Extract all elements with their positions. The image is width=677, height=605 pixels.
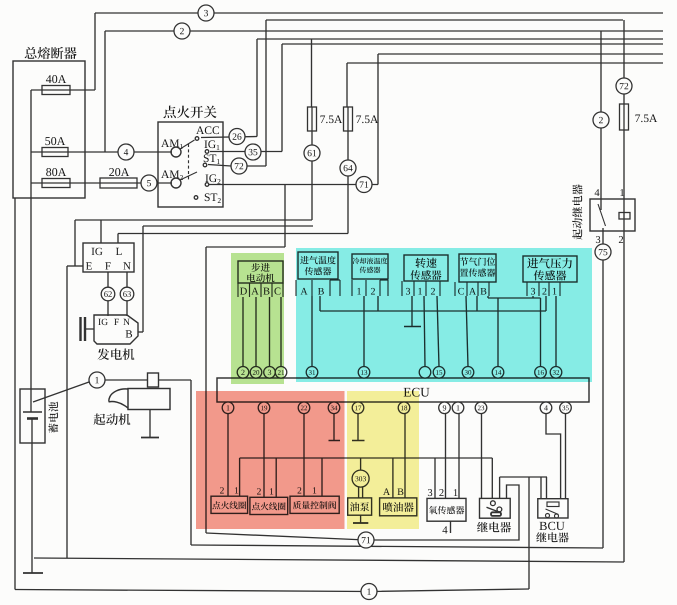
BCU relay box	[538, 499, 568, 518]
ignition switch box 点火开关	[158, 122, 223, 207]
throttle position sensor box 节气门位置传感器	[459, 254, 496, 282]
label coolant temp line2	[360, 267, 367, 274]
value 20A	[109, 168, 114, 176]
terminal AM1	[161, 139, 169, 147]
alternator pulley	[81, 317, 86, 341]
wire signal line riser to ECU pin16	[540, 298, 542, 367]
fuse F2 7.5A	[344, 107, 353, 131]
wire battery negative down	[31, 419, 33, 574]
BCU relay coil	[547, 502, 559, 507]
wire intake B drop to ground bus	[319, 296, 321, 311]
stepper motor box 步进电动机	[238, 261, 283, 283]
wire bus L6 node 71	[378, 53, 663, 55]
wire ECU pin1 to coil1 pin2	[227, 414, 229, 497]
pin 3 starter relay	[596, 236, 600, 243]
label alternator 发电机	[98, 348, 110, 360]
node 1 at starter	[89, 372, 105, 388]
speed sensor box 转速传感器	[404, 255, 448, 281]
starter relay coil	[619, 213, 630, 220]
pin 2 coil1	[220, 487, 224, 493]
pin IG connector	[92, 248, 95, 255]
ECU top pin 2	[237, 367, 249, 379]
main relay contact circle b	[497, 507, 502, 512]
pressure pin cells 3 2 1	[527, 282, 560, 296]
wire ECU pin35 to BCU relay	[565, 414, 567, 499]
manifold pressure sensor box 进气压力传感器	[523, 256, 577, 282]
wire bottom positive line node 1	[15, 589, 529, 592]
main relay contact circle a	[491, 501, 496, 506]
BCU relay contact b	[555, 514, 559, 518]
ECU top pin 15	[433, 367, 445, 379]
wire ACC to node 26	[201, 137, 257, 138]
wire pump line node 71 bottom	[206, 485, 519, 540]
pin B throttle	[480, 288, 486, 295]
BCU relay contact a	[546, 514, 550, 518]
pin 2 oxygen	[439, 489, 443, 496]
wire stepper D to ECU pin2	[242, 297, 244, 367]
red highlight zone over ignition actuators	[196, 391, 345, 529]
label injector 喷油器	[383, 502, 393, 512]
wire pressure 2 drop to ground bus	[545, 296, 547, 311]
wire H1 to BCU coil b	[546, 477, 548, 499]
label speed sensor line1	[415, 258, 425, 268]
starter solenoid terminal	[148, 373, 159, 387]
node 64	[340, 160, 356, 176]
wire 61 line to alternator IG	[75, 219, 312, 221]
ignition coil 1 box 点火线圈	[211, 496, 248, 513]
contact ST1	[203, 163, 207, 167]
BCU relay switch diagonal	[546, 509, 559, 515]
pin L connector	[116, 248, 122, 255]
cyan highlight zone over sensors	[296, 248, 592, 382]
wire F to node 62 to alternator	[107, 272, 109, 316]
label pressure line1	[527, 258, 538, 269]
wire long vertical down to pump line	[205, 247, 207, 533]
label throttle line2	[460, 269, 468, 277]
wire riser 26 up to L4	[256, 39, 258, 137]
wire fuse F1 through node 61 down	[311, 131, 313, 220]
ground bar battery	[23, 572, 43, 574]
wire bus L4 node 26	[257, 38, 663, 40]
wire intake A to ECU pin31	[311, 296, 313, 367]
terminal ACC	[196, 126, 204, 134]
wire H1 to main relay	[499, 477, 501, 498]
pin 2 speed	[431, 288, 435, 295]
wire bus L7 node 64	[347, 62, 663, 64]
wire sensor signal line B3	[488, 297, 541, 299]
mass control valve box 质量控制阀	[290, 496, 339, 513]
wire 50A fuse line to AM1	[31, 151, 172, 153]
label intake temp line1	[300, 256, 309, 264]
wire feed to main relay	[491, 458, 493, 498]
wire sensor ground bus	[320, 310, 546, 312]
pin F alternator	[114, 319, 119, 325]
wire pressure 3 drop	[532, 296, 534, 298]
wire bus L5 node 35	[282, 43, 663, 45]
fuse F1 7.5A	[308, 107, 317, 131]
battery box 蓄电池	[20, 389, 45, 443]
label main fuse box 总熔断器	[25, 47, 37, 59]
wire feed to coil2 pin1	[275, 458, 277, 497]
fuse F3 7.5A	[620, 104, 629, 130]
pin A injector	[383, 488, 390, 495]
pin IG alternator	[98, 319, 100, 325]
intake air temp sensor box 进气温度传感器	[298, 252, 338, 279]
wire ECU pin23 through feed line to main relay	[481, 414, 483, 499]
fuse box 总熔断器 outline	[13, 61, 85, 198]
label fuel pump 油泵	[350, 502, 359, 511]
wire ECU pin34 shield stub	[333, 414, 335, 440]
ECU top pin 32	[550, 367, 562, 379]
ECU bottom pin 9	[439, 402, 451, 414]
pin E connector	[86, 262, 92, 269]
coolant temp sensor box 冷却液温度传感器	[352, 254, 388, 279]
ground bar pump	[353, 522, 368, 524]
wire fuse F2 through node 64 down	[347, 131, 349, 234]
contact IG1	[205, 150, 209, 154]
wire N to node 63 to alternator	[126, 272, 128, 316]
green highlight zone over stepper motor	[231, 253, 284, 384]
wire oxygen pin4 stub	[450, 521, 452, 533]
label battery 蓄电池	[48, 402, 58, 433]
node 75	[595, 244, 611, 260]
pin 1 coil2	[270, 488, 273, 494]
fuse 80A	[42, 179, 70, 188]
node 2 top bus	[174, 23, 190, 39]
ECU top pin 3	[264, 367, 276, 379]
wire riser 71 up to L6	[377, 54, 379, 185]
shield bar pin17	[352, 440, 365, 442]
contact ACC	[195, 137, 199, 141]
ECU bottom pin 19	[258, 402, 270, 414]
wire IG2 line to node 71	[209, 184, 378, 186]
value 50A	[45, 137, 50, 145]
wire 64 line to alternator L	[118, 233, 348, 235]
pin 1 pressure	[553, 288, 557, 295]
fuel pump box 油泵	[348, 498, 372, 515]
wire alternator B line	[143, 225, 313, 227]
pin C throttle	[458, 288, 464, 295]
terminal ST2	[205, 193, 210, 201]
wire throttle A drop to ground bus	[476, 296, 478, 311]
label mass control valve	[293, 501, 301, 509]
alternator body 发电机	[94, 315, 138, 344]
wire battery ground line to relay pin2	[34, 558, 624, 562]
wire branch elbow to long vertical	[206, 246, 285, 248]
pin A intake temp	[300, 288, 307, 295]
wire 80A fuse line to 20A and AM2	[31, 182, 172, 184]
wire drop L3 to starter relay pin4	[600, 31, 602, 210]
pin 1 starter relay	[620, 189, 624, 196]
wire speed 2 to ECU pin15	[437, 296, 439, 367]
ECU top pin 13	[358, 367, 370, 379]
wire riser L7 down to fuse F2	[346, 63, 348, 107]
label stepper 电动机	[247, 273, 255, 282]
pin 2 valve	[298, 487, 302, 493]
battery plates symbol	[23, 411, 42, 413]
fuse 50A	[42, 148, 68, 157]
node 71 at switch line	[356, 177, 372, 193]
starter nose hook	[109, 389, 128, 408]
wire E ground drop	[66, 266, 68, 558]
pin C stepper	[274, 288, 280, 295]
oxygen sensor box 氧传感器	[427, 498, 466, 521]
pin 1 valve	[313, 487, 316, 493]
speed pin cells 3 1 2	[402, 281, 440, 296]
shield bar pin34	[329, 440, 341, 442]
wire E lead left	[67, 265, 83, 267]
ECU bottom pin 1	[222, 402, 234, 414]
starter relay switch contact	[598, 204, 606, 226]
wire signal line to ECU pin14	[497, 298, 499, 367]
pin A stepper	[251, 288, 258, 295]
node 303 fuel pump	[352, 470, 369, 487]
pin 1 coolant	[357, 288, 361, 295]
wire pump ground	[360, 515, 362, 522]
wire riser 35 up to L5	[281, 44, 283, 152]
fuse 40A	[42, 86, 70, 95]
wire 303 to pump a	[358, 487, 360, 498]
wire stepper B to ECU pin3	[269, 297, 271, 367]
terminal IG1	[204, 140, 207, 148]
wire riser L1 to 40A fuse line	[94, 13, 96, 90]
node 72 right	[616, 78, 632, 94]
label ignition coil 1	[212, 501, 220, 509]
starter motor body 起动机	[128, 389, 170, 410]
pin B stepper	[263, 288, 269, 295]
wire left edge drop	[14, 198, 16, 590]
coolant pin cells 1 2	[352, 280, 388, 296]
wire throttle B drop	[487, 296, 489, 298]
ECU bottom pin 17	[352, 402, 364, 414]
pin 1 speed	[418, 288, 422, 295]
wire stepper C to ECU pin21	[280, 297, 282, 367]
wire ECU pin1b to oxygen 1	[458, 414, 460, 499]
pin 1 coil1	[235, 487, 238, 493]
label main relay 继电器	[477, 522, 488, 532]
pin 4 starter relay	[595, 189, 600, 196]
ECU top pin 16	[535, 367, 547, 379]
terminal ST1	[204, 154, 209, 162]
wire ECU pin9 to oxygen 2	[445, 414, 447, 499]
wire bus L1 node 3	[95, 12, 663, 14]
ECU bottom pin 23	[475, 402, 487, 414]
fuel injector box 喷油器	[380, 498, 417, 516]
ECU bottom pin 1	[452, 402, 464, 414]
terminal AM2	[161, 170, 169, 178]
contact AM2	[171, 178, 181, 188]
ECU bottom pin 4	[540, 402, 552, 414]
label throttle line1	[460, 257, 468, 265]
node 26	[229, 129, 245, 145]
wire coolant 1 to ECU pin13	[363, 296, 365, 367]
pin B injector	[397, 488, 403, 495]
wire bus L3 node 2	[105, 30, 663, 32]
ECU top pin nc	[419, 367, 431, 379]
label BCU	[539, 522, 546, 530]
wire starter ground	[149, 410, 151, 437]
node 2 right	[593, 112, 609, 128]
wire feed to injector A	[392, 458, 394, 498]
wire ECU pin4 to BCU relay	[546, 414, 561, 499]
intake temp pin cells A B	[296, 280, 340, 296]
ECU bottom pin 18	[398, 402, 410, 414]
node 63	[120, 287, 134, 301]
wire IG1 to node 35	[210, 151, 282, 153]
contact IG2	[205, 183, 209, 187]
wire ECU pin22 to valve pin2	[303, 414, 305, 497]
contact AM1	[171, 147, 181, 157]
wire riser L4 down to fuse F1	[311, 39, 313, 107]
wire bus L2 node 72	[266, 19, 623, 21]
ECU bottom pin 35	[560, 402, 572, 414]
value 7.5A F2	[356, 115, 361, 123]
node 72 at switch	[231, 158, 247, 174]
wire riser ST1-72 up to L2	[265, 20, 267, 166]
node 71 bottom	[358, 532, 374, 548]
pin D stepper	[240, 288, 247, 295]
pin 2 starter relay	[619, 236, 623, 243]
wire feed to coil1 pin1	[239, 458, 241, 496]
pin 1 oxygen	[454, 489, 458, 496]
label ignition coil 2	[252, 502, 260, 510]
switch lever AM2-IG2	[180, 172, 197, 180]
pin A throttle	[469, 288, 476, 295]
wire alternator B stub	[138, 331, 143, 333]
wire feed to pump node 303	[360, 458, 362, 471]
main relay coil pill	[491, 512, 501, 516]
ECU box	[217, 378, 589, 402]
label pressure line2	[534, 270, 544, 280]
label oxygen sensor 氧传感器	[429, 506, 437, 514]
wire pressure 1 to ECU pin32	[555, 296, 557, 367]
ignition coil 2 box 点火线圈	[250, 497, 288, 514]
wire relay pin2 drop	[623, 231, 625, 562]
value 7.5A F1	[320, 115, 325, 123]
ECU top pin 30	[462, 367, 474, 379]
label BCU relay 继电器	[536, 532, 546, 542]
switch link dashed	[188, 144, 190, 180]
terminal IG2	[205, 174, 208, 182]
wire ECU pin17 shield stub	[357, 414, 359, 440]
pin B alternator	[126, 330, 132, 337]
wire E riser	[74, 220, 76, 266]
wire H1 feed line	[500, 476, 547, 478]
value 40A	[46, 75, 52, 83]
wire alternator L riser	[117, 234, 119, 244]
ECU top pin 31	[306, 367, 318, 379]
wire 40A fuse line	[31, 89, 95, 91]
ground bar starter	[141, 437, 159, 439]
wire coolant 2 drop to ground bus	[377, 296, 379, 311]
fuse 20A	[100, 178, 137, 188]
wire H1 to BCU coil a	[540, 477, 542, 499]
main relay switch diagonal	[487, 507, 498, 511]
alternator connector box IG L E F N	[83, 243, 134, 272]
wire drop L2 through fuse F3 relay pin1 to pin2	[623, 20, 625, 231]
node 1 bottom	[361, 584, 377, 600]
label coolant temp line1	[353, 258, 360, 265]
wire alternator IG riser	[100, 220, 102, 243]
pin 3 pressure	[531, 288, 535, 295]
switch lever AM1-ACC	[180, 140, 195, 149]
label intake temp line2	[305, 267, 314, 275]
wire relay pin3 drop through node 75	[602, 228, 604, 548]
wire ECU pin18 to injector B	[404, 414, 406, 498]
wire speed 3 to ground	[411, 296, 413, 326]
wire bottom line riser to H1	[528, 477, 530, 589]
node 4	[118, 144, 134, 160]
ECU top pin 20	[250, 367, 262, 379]
wire 303 to pump b	[362, 487, 364, 498]
value 80A	[46, 168, 51, 176]
ground bar speed sensor	[404, 326, 421, 328]
wire starter feed drop	[190, 380, 192, 545]
wire alternator B riser	[142, 226, 144, 332]
label ignition switch 点火开关	[164, 106, 176, 119]
stepper pin cells D A B C	[238, 283, 283, 297]
pin 2 coil2	[257, 488, 261, 494]
label starter relay 起动继电器	[572, 184, 582, 239]
wire starter line to relay pin3	[191, 545, 603, 548]
wire accessory feed line	[240, 457, 493, 459]
node 5	[141, 175, 157, 191]
pin 3 speed	[406, 288, 410, 295]
wire solenoid to right drop	[159, 379, 192, 381]
wire throttle C to ECU pin30	[466, 296, 468, 367]
pin N alternator	[123, 319, 129, 325]
pin F connector	[105, 262, 110, 269]
ECU top pin 21	[275, 367, 287, 379]
throttle pin cells C A B	[455, 282, 489, 296]
label stepper 步进	[251, 263, 260, 272]
node 61	[304, 145, 320, 161]
node 3 top bus	[198, 5, 214, 21]
wire speed 1 to ECU open pin	[424, 296, 425, 367]
wire stepper A to ECU pin20	[255, 297, 257, 367]
pin B intake temp	[318, 288, 324, 295]
pin 2 coolant	[371, 288, 375, 295]
node 35	[245, 144, 261, 160]
label starter motor 起动机	[94, 413, 106, 425]
wire riser L3 down to AM1 line	[104, 31, 106, 152]
starter relay box 起动继电器	[590, 199, 635, 231]
pin 3 oxygen	[428, 489, 432, 496]
pin 4 oxygen	[442, 526, 447, 533]
wire battery feed vertical	[30, 90, 32, 412]
wire ST1 to node 72	[208, 165, 266, 167]
label ECU	[404, 388, 430, 397]
wire battery diagonal to node 1	[33, 382, 89, 402]
wire node1 to solenoid	[105, 379, 148, 381]
main relay box 继电器	[480, 498, 511, 518]
label speed sensor line2	[410, 270, 420, 280]
ECU bottom pin 22	[298, 402, 310, 414]
wire ECU pin19 to coil2 pin2	[263, 414, 265, 498]
wire IG2 branch drop	[284, 185, 286, 248]
wire feed to valve pin1	[321, 458, 323, 496]
ECU bottom pin 34	[328, 402, 340, 414]
node 62	[101, 287, 115, 301]
contact ST2	[194, 196, 198, 200]
wire feed to oxygen pin3	[434, 458, 436, 498]
yellow highlight zone over fuel system	[347, 391, 419, 529]
value 7.5A F3	[635, 114, 640, 122]
pin N connector	[123, 262, 130, 269]
pin 2 pressure	[542, 288, 546, 295]
ECU top pin 14	[492, 367, 504, 379]
